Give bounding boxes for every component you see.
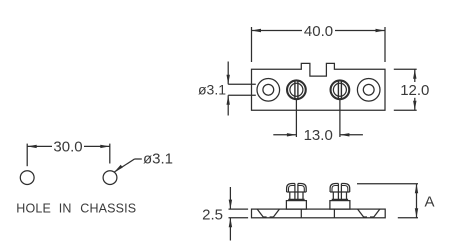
screw terminal right (top view) inner circle [333, 83, 346, 96]
dim 40.0 arrow left [252, 29, 262, 32]
chassis hole right [103, 171, 117, 185]
dim 40.0 dimension line left segment [252, 30, 303, 32]
screw 2 side view washer ledge [332, 198, 348, 200]
screw 2 dome inner arcs [332, 186, 338, 193]
dim 2.5 dimension line lower segment [229, 218, 231, 241]
svg-text:HOLEINCHASSIS: HOLEINCHASSIS [16, 202, 136, 216]
dim A arrow down [415, 208, 418, 218]
side view plate [252, 209, 386, 218]
dim 30.0 dimension line right segment [84, 145, 110, 147]
dim 2.5 top extension line [229, 208, 249, 210]
screw 1 side view slot walls [294, 184, 296, 201]
dim 2.5 arrow up [229, 218, 232, 228]
dim 12.0 arrow down [413, 101, 416, 111]
side view plate division line right [333, 209, 335, 218]
svg-text:A: A [425, 194, 435, 211]
screw terminal left (top view) inner circle [290, 83, 303, 96]
dim 13.0 arrow left (pointing left) [340, 133, 350, 136]
dim 12.0 arrow up [413, 69, 416, 79]
svg-text:13.0: 13.0 [304, 127, 333, 144]
countersink left diagonals [257, 209, 263, 217]
dim ø3.1 (top view) arrow up [227, 95, 230, 105]
dim 13.0 right tail [340, 134, 363, 136]
screw 1 dome inner arcs [289, 186, 295, 193]
dim A top extension line [357, 183, 418, 185]
dim 12.0 bottom extension line [394, 109, 417, 111]
chassis hole left [20, 171, 34, 185]
dim 13.0 left extension line [295, 100, 297, 138]
screw terminal left slot [295, 81, 298, 99]
dim 40.0 arrow right [376, 29, 386, 32]
dim 40.0 dimension line right segment [335, 30, 385, 32]
dim 2.5 arrow down [229, 200, 232, 210]
screw 1 side view dome bottom [287, 191, 307, 193]
dim ø3.1 (top view) arrow down [227, 75, 230, 85]
dim 30.0 dimension line left segment [27, 145, 52, 147]
dim 12.0 top extension line [394, 68, 417, 70]
dim ø3.1 (top view) lower extension line [228, 94, 256, 96]
chassis ø3.1 leader diagonal [114, 159, 134, 172]
svg-text:12.0: 12.0 [400, 82, 429, 99]
dim ø3.1 (top view) dimension line lower segment [227, 95, 229, 115]
svg-text:30.0: 30.0 [53, 139, 82, 156]
screw 2 side view dome right half [341, 184, 349, 193]
countersink left hidden bottom (dashed) [263, 216, 274, 218]
dim 2.5 bottom extension line [229, 217, 249, 219]
dim 13.0 left tail [273, 134, 296, 136]
screw 2 side view slot walls [337, 184, 339, 201]
screw 2 side view neck sides [332, 192, 334, 199]
svg-text:2.5: 2.5 [202, 207, 223, 224]
screw 2 side view base block [330, 201, 350, 210]
dim 30.0 left extension line [26, 144, 28, 167]
svg-text:ø3.1: ø3.1 [198, 81, 226, 97]
screw 1 side view neck sides [289, 192, 291, 199]
mounting hole right (top view) inner ø3.1 [363, 84, 374, 95]
chassis ø3.1 leader horizontal tick [135, 158, 142, 160]
screw 1 side view base block [286, 201, 306, 210]
countersink right hidden bottom (dashed) [363, 216, 374, 218]
dim 2.5 dimension line upper segment [229, 187, 231, 209]
dim ø3.1 (top view) upper extension line [228, 83, 256, 85]
dim 40.0 right extension line [384, 27, 386, 62]
side view plate division line left [300, 209, 302, 218]
screw 1 side view dome right half [298, 184, 306, 193]
mounting hole left (top view) inner ø3.1 [263, 84, 274, 95]
screw terminal right slot [338, 81, 341, 99]
dim ø3.1 (top view) dimension line upper segment [227, 62, 229, 85]
dim A arrow up [415, 184, 418, 194]
dim 30.0 arrow left [27, 145, 37, 148]
dim 30.0 right extension line [109, 144, 111, 164]
screw terminal left (top view) head [287, 80, 306, 99]
top view: fuse holder body outline with notch [252, 63, 386, 110]
dim 13.0 arrow right (pointing right) [287, 133, 297, 136]
dim 40.0 left extension line [251, 27, 253, 62]
dim 30.0 arrow right [100, 145, 110, 148]
dim 13.0 right extension line [339, 100, 341, 138]
screw 2 side view dome left half [330, 184, 338, 193]
screw terminal right (top view) head [331, 80, 350, 99]
dim A bottom extension line [398, 217, 418, 219]
mounting hole right (top view) outer [357, 79, 380, 102]
chassis ø3.1 leader arrowhead [114, 165, 123, 172]
screw 1 side view dome left half [287, 184, 295, 193]
mounting hole left (top view) outer [257, 79, 280, 102]
dim 12.0 dimension line bottom segment [414, 98, 416, 111]
screw 2 side view dome bottom [330, 191, 350, 193]
dim 12.0 dimension line top segment [414, 69, 416, 82]
dim A dimension line [416, 184, 418, 218]
screw 1 side view washer ledge [288, 198, 304, 200]
countersink right diagonals [358, 209, 364, 217]
svg-text:ø3.1: ø3.1 [143, 151, 173, 168]
svg-text:40.0: 40.0 [304, 23, 333, 40]
